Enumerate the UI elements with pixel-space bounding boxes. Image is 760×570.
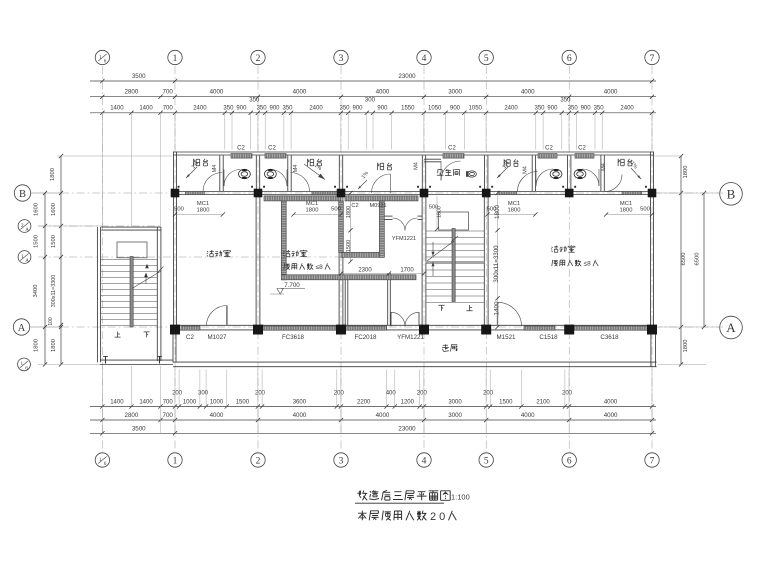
stair2 treads [426,230,484,232]
svg-text:C3618: C3618 [600,334,619,341]
dim tick [173,212,177,216]
dim extension [226,370,228,407]
svg-text:1: 1 [173,54,178,64]
svg-text:2400: 2400 [309,106,323,112]
stair2 center rail [452,229,455,302]
door M4 balcony1 [203,173,222,192]
grid line 5 vertical [485,66,487,452]
dim tick [560,111,564,115]
dim tick [173,431,177,435]
dim tick [390,111,394,115]
grid bubble 5 bottom [479,453,493,467]
svg-text:200: 200 [417,391,428,397]
dim extension [130,113,132,226]
column grid6-B [565,189,574,198]
dim line right inner [680,156,682,364]
wall toilet/balcony2 [287,155,289,191]
svg-text:5: 5 [484,456,489,466]
slope arrow balcony1 [186,167,197,178]
dim tick [59,154,63,158]
slope arrow balcony3 [358,180,367,189]
stair2 arrow [432,242,434,256]
svg-text:500: 500 [331,207,341,213]
column grid6-A [564,325,574,335]
dim extension [174,407,176,434]
grid line 7 vertical [651,66,653,452]
label xia stair2 [438,305,444,311]
label yangtai balcony1 [194,159,200,166]
svg-text:1800: 1800 [197,208,210,214]
dim tick [221,212,225,216]
wall corridor south [173,361,657,363]
svg-text:B: B [727,187,736,202]
svg-text:500: 500 [174,207,184,213]
wall x346 lower [344,278,346,325]
dim extension [463,113,465,150]
stair2 landing edge [426,261,485,263]
svg-text:C2: C2 [448,145,456,151]
dim extension [101,366,103,407]
dim tick [422,404,426,408]
svg-text:1400: 1400 [139,400,153,406]
svg-text:4000: 4000 [521,412,535,419]
svg-text:700: 700 [163,400,174,406]
label shiyongrenshu room3 [552,260,558,266]
dim tick [604,212,608,216]
dim tick [263,111,267,115]
svg-text:350: 350 [339,106,350,112]
svg-text:900: 900 [581,106,592,112]
stair2 landing [439,212,469,230]
wall toilet/toilet grid2 [255,155,257,191]
label zoulang corridor [442,344,449,351]
window FC2018 [346,326,387,330]
grid bubble B right [720,183,743,206]
door toilet1 [224,170,241,187]
column grid5-A [481,325,491,335]
dim tick [339,418,343,422]
dim extension [594,113,596,150]
dim tick [574,111,578,115]
column grid3-B [337,189,346,198]
dim tick [567,404,571,408]
svg-text:3000: 3000 [448,89,462,96]
svg-text:100: 100 [48,317,54,326]
dim extension [347,113,349,150]
wall balcony1/toilet [219,155,221,191]
svg-text:6500: 6500 [695,253,701,266]
toilet 2 [265,169,277,178]
dim extension [654,192,723,194]
dim extension [199,370,201,407]
column grid3-A [336,325,346,335]
dim line x350 [350,193,352,262]
svg-text:200: 200 [483,391,494,397]
dim extension [257,370,259,407]
svg-text:A: A [726,320,736,335]
svg-text:1400: 1400 [139,106,153,112]
dim tick [158,418,162,422]
dim tick [650,404,654,408]
hatch wall room2 west [281,196,286,280]
svg-text:1: 1 [173,456,178,466]
svg-text:1400: 1400 [110,400,124,406]
dim tick [485,212,489,216]
dim extension [489,370,491,407]
svg-text:200: 200 [334,391,345,397]
svg-text:6: 6 [104,461,107,467]
svg-text:4000: 4000 [376,89,390,96]
svg-text:MC1: MC1 [197,201,209,207]
dim tick [230,111,234,115]
dim tick [371,111,375,115]
dim tick [204,404,208,408]
dim extension [174,370,176,407]
wall toilet/balcony5 [600,155,602,191]
door M1027 [206,306,227,327]
svg-text:350: 350 [594,106,605,112]
dim extension [38,363,100,365]
dim tick [346,111,350,115]
grid bubble 1/6 left-bottom [18,358,31,371]
svg-text:1200: 1200 [401,400,415,406]
svg-text:MC1: MC1 [306,201,318,207]
grid bubble 1 bottom [168,453,182,467]
column grid4-B [420,189,429,198]
svg-text:1800: 1800 [437,206,443,218]
svg-text:YFM1221: YFM1221 [392,236,416,242]
dim tick [59,323,63,327]
title gaizao hou sanceng pingmiantu [357,491,367,501]
dim extension [658,363,706,365]
wall corridor east [650,327,652,367]
dim tick [100,431,104,435]
dim extension [568,370,570,407]
svg-text:4000: 4000 [376,412,390,419]
svg-text:C2: C2 [578,145,586,151]
wall grid5 upper [484,155,486,191]
svg-text:2400: 2400 [504,106,518,112]
dim tick [387,271,391,275]
grid bubble 1 top [168,50,182,64]
svg-text:2400: 2400 [193,106,207,112]
dim line bottom row1 [90,406,656,408]
svg-text:1500: 1500 [236,400,250,406]
grid line B horizontal [31,192,61,194]
dim tick [422,95,426,99]
dim line left inner [60,156,62,364]
dim tick [650,418,654,422]
dim tick [484,95,488,99]
dim tick [177,404,181,408]
dim tick [43,325,47,329]
svg-text:350: 350 [249,98,260,104]
dim tick [444,111,448,115]
svg-text:4000: 4000 [293,89,307,96]
stair1 arrow2 [145,264,149,269]
svg-text:B: B [19,189,26,200]
grid line 6 vertical [568,66,570,452]
dim tick [593,111,597,115]
wall stair2 east grid5 [483,195,485,325]
svg-text:700: 700 [163,412,174,419]
dim tick [59,191,63,195]
grid bubble 4 top [417,50,431,64]
dim tick [59,325,63,329]
dim tick [567,418,571,422]
wall yfm top stub [384,215,392,217]
svg-text:1: 1 [21,361,24,367]
dim tick [225,404,229,408]
svg-text:2 0: 2 0 [430,511,445,523]
title underline [355,502,444,504]
dim extension [366,113,368,150]
dim line under window [606,214,652,216]
svg-text:2: 2 [256,54,261,64]
svg-text:C2: C2 [237,145,245,151]
dim tick [249,111,253,115]
svg-text:1800: 1800 [508,208,521,214]
svg-text:4000: 4000 [293,412,307,419]
label yangtai balcony4 [504,159,510,166]
svg-text:900: 900 [269,106,280,112]
dim tick [519,404,523,408]
title benceng shiyongrenshu [358,511,366,521]
svg-text:2: 2 [256,456,261,466]
svg-text:≤8: ≤8 [584,261,592,268]
svg-text:1800: 1800 [494,205,501,220]
wall corridor west stub [172,330,174,363]
dim extension [160,407,162,434]
dim tick [100,79,104,83]
dim tick [650,212,654,216]
dim tick [495,325,499,329]
svg-text:M1027: M1027 [208,334,227,341]
dim tick [600,111,604,115]
dim tick [339,95,343,99]
dim tick [567,95,571,99]
svg-text:M4: M4 [523,166,529,174]
svg-text:1600: 1600 [34,203,40,216]
svg-text:1050: 1050 [428,106,442,112]
svg-text:1400: 1400 [110,106,124,112]
dim tick [422,271,426,275]
column grid2-B [254,189,263,198]
label shiyongrenshu room2 [284,263,290,269]
svg-text:3000: 3000 [448,400,462,406]
dim extension [264,113,266,150]
dim extension [101,407,103,434]
dim extension [283,113,285,150]
svg-text:6: 6 [567,54,572,64]
dim tick [256,404,260,408]
grid bubble A right [720,316,743,339]
svg-text:1050: 1050 [469,106,483,112]
wall toilet grid6 [567,155,569,191]
svg-text:C2: C2 [268,145,276,151]
svg-text:300: 300 [198,391,209,397]
svg-text:3400: 3400 [33,285,39,298]
dim line right outer [703,193,705,327]
dim tick [484,404,488,408]
dim line bottom row2 [90,419,656,421]
svg-text:3600: 3600 [293,400,307,406]
wall balcony front top [173,151,654,153]
dim tick [563,404,567,408]
grid bubble 3 bottom [334,453,348,467]
wall A main [173,324,657,326]
label shang annex [115,332,121,338]
dim extension [340,407,342,434]
svg-text:1: 1 [21,254,24,260]
dim extension [101,113,103,226]
hatch wall grid3 upper part [339,201,344,252]
dim extension [178,370,180,407]
dim tick [484,418,488,422]
toilet 4 [550,169,562,178]
svg-text:300x11=3300: 300x11=3300 [51,275,57,307]
svg-text:1500: 1500 [499,400,513,406]
dim tick [100,95,104,99]
svg-text:M4: M4 [414,162,420,170]
dim tick [422,111,426,115]
stair1 arrow [145,275,147,284]
dim tick [650,95,654,99]
window MC1 room2 [312,191,336,194]
svg-text:900: 900 [377,106,388,112]
dim tick [173,111,177,115]
dim tick [289,111,293,115]
dim tick [679,154,683,158]
dim line left outer [44,193,46,364]
dim extension [290,113,292,150]
door M1521 [498,302,522,326]
hatch wall shaft south [341,252,384,257]
new wall hatch room2 B [264,196,341,201]
dim extension [575,113,577,150]
wall bath alcove [424,158,441,160]
wall grid4 upper [421,155,423,191]
dim tick [129,404,133,408]
grid line A horizontal [30,326,61,328]
wall B main [173,191,654,193]
new wall hatch mid B [345,196,418,201]
label xia annex [144,332,150,338]
dim tick [282,111,286,115]
dim line grid4 [436,196,438,229]
dim tick [59,255,63,259]
svg-text:1600: 1600 [51,203,57,216]
svg-text:MC1: MC1 [620,201,632,207]
svg-text:YFM1221: YFM1221 [397,334,424,341]
dim tick [43,191,47,195]
dim tick [339,111,343,115]
dim extension [423,407,425,434]
grid line 3 vertical [340,66,342,452]
svg-text:4000: 4000 [604,400,618,406]
svg-text:FC2018: FC2018 [354,334,377,341]
dim tick [393,404,397,408]
svg-text:4000: 4000 [521,89,535,96]
dim tick [384,404,388,408]
grid bubble 7 top [645,50,659,64]
label shang stair2 [466,305,472,311]
grid bubble 6 bottom [562,453,576,467]
dim tick [418,404,422,408]
window C2 toilet4 [575,154,594,159]
svg-text:900: 900 [547,106,558,112]
svg-text:1550: 1550 [401,106,415,112]
column grid7-A [647,325,657,335]
dim extension [651,113,653,150]
stair1 break line [132,271,161,289]
svg-text:A: A [25,258,29,264]
svg-text:350: 350 [282,106,293,112]
svg-text:200: 200 [255,391,266,397]
dim line top row3 [90,112,656,114]
label yangtai balcony3 [378,163,384,170]
dim tick [173,95,177,99]
svg-text::: : [424,512,427,522]
svg-text:350: 350 [534,106,545,112]
dim tick [291,212,295,216]
grid line 4 vertical [423,66,425,452]
wall yfm top stub2 [418,215,423,217]
dim tick [43,255,47,259]
window FC3618 [263,326,336,330]
dim extension [561,113,563,150]
wall balcony4/toilet [531,155,533,191]
dim extension [257,113,259,150]
grid bubble 6 top [562,50,576,64]
hatch wall room2 south [281,275,416,280]
window MC1 room3 [498,191,517,194]
grid bubble 2/A left [18,220,31,233]
dim tick [348,259,352,263]
grid bubble 5 top [479,50,493,64]
dim tick [339,404,343,408]
dim tick [173,418,177,422]
dim line under window [294,214,342,216]
dim extension [651,407,653,434]
wall annex top [101,226,161,228]
door M4 balcony3 [372,174,391,193]
dim tick [702,191,706,195]
dim tick [541,111,545,115]
door M4 balcony5 [605,175,622,192]
dim tick [173,404,177,408]
column grid1-B [171,189,180,198]
dim line top row2 [90,96,656,98]
door YFM1221 top pair [393,218,418,231]
hatch wall shaft east [379,201,384,257]
dim extension [160,366,162,407]
dim extension [423,113,425,150]
grid bubble 7 bottom [645,453,659,467]
dim tick [256,111,260,115]
svg-text:1700: 1700 [400,268,414,274]
door toilet3 [536,169,553,186]
svg-text:4: 4 [422,54,427,64]
svg-text:3: 3 [339,456,344,466]
wall annex bottom [100,359,173,361]
svg-text:1800: 1800 [51,339,57,352]
dim tick [534,111,538,115]
dim extension [336,370,338,407]
window MC1 room1 [185,191,204,194]
slope arrow balcony2 [304,164,325,180]
dim extension [485,370,487,407]
